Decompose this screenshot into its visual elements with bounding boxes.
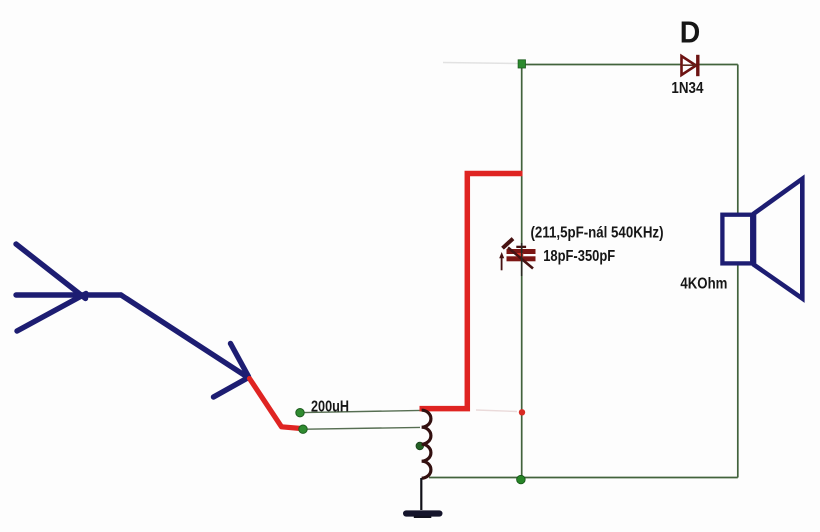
- capacitor C1 adjust arrow shaft: [508, 248, 533, 269]
- wire: red link coil-top to cap-net (up and over): [420, 174, 523, 409]
- faint ghost wire right of tuning cap top: [476, 410, 517, 412]
- svg-text:1N34: 1N34: [671, 80, 703, 97]
- wire: thin lead from node B to coil tap: [306, 427, 420, 429]
- wire: segment through diode triangle: [682, 64, 696, 66]
- wire: top horizontal net (junction to diode to right corner): [522, 64, 738, 66]
- svg-text:4KOhm: 4KOhm: [680, 276, 727, 293]
- node E (coil tap dot): [416, 442, 424, 450]
- ground lead wire: [420, 478, 422, 510]
- node B (red lead junction): [299, 425, 307, 433]
- capacitor C1 bright center mark: [516, 253, 523, 257]
- capacitor C1 left trim arrow: [501, 256, 503, 270]
- wire: bottom horizontal net: [429, 477, 738, 479]
- wire: center vertical net through tuning capacitor: [521, 64, 523, 480]
- ground symbol: [403, 510, 443, 516]
- node D2 (bottom junction): [517, 475, 526, 484]
- diode D 1N34 triangle: [682, 56, 697, 75]
- svg-text:D: D: [680, 15, 701, 49]
- wire: red antenna down-lead: [250, 379, 303, 429]
- diode D cathode bar: [696, 55, 699, 76]
- capacitor C1 adjust arrow head: [503, 239, 514, 249]
- svg-text:18pF-350pF: 18pF-350pF: [543, 248, 615, 265]
- variable capacitor C1 plates: [507, 249, 536, 254]
- speaker LS1 horn: [754, 179, 802, 299]
- speaker LS1 box: [722, 215, 752, 264]
- node A (antenna tap, 200uH lead): [296, 409, 304, 417]
- wire: right vertical net through speaker: [737, 65, 739, 478]
- faint ghost wire left of top junction: [443, 63, 518, 64]
- antenna A1 (mast with feed arrow): [16, 244, 249, 397]
- svg-text:200uH: 200uH: [311, 398, 349, 415]
- wire: thin lead from node A to coil top: [303, 410, 421, 412]
- capacitor C1 top lead stub: [516, 246, 526, 248]
- node C (top junction at tuning net): [518, 60, 525, 68]
- node F (red dot on tuning net): [519, 409, 525, 415]
- wire: tuning net segment over capacitor: [521, 243, 523, 276]
- inductor L1 200uH coil: [422, 410, 431, 478]
- svg-text:(211,5pF-nál 540KHz): (211,5pF-nál 540KHz): [531, 225, 664, 242]
